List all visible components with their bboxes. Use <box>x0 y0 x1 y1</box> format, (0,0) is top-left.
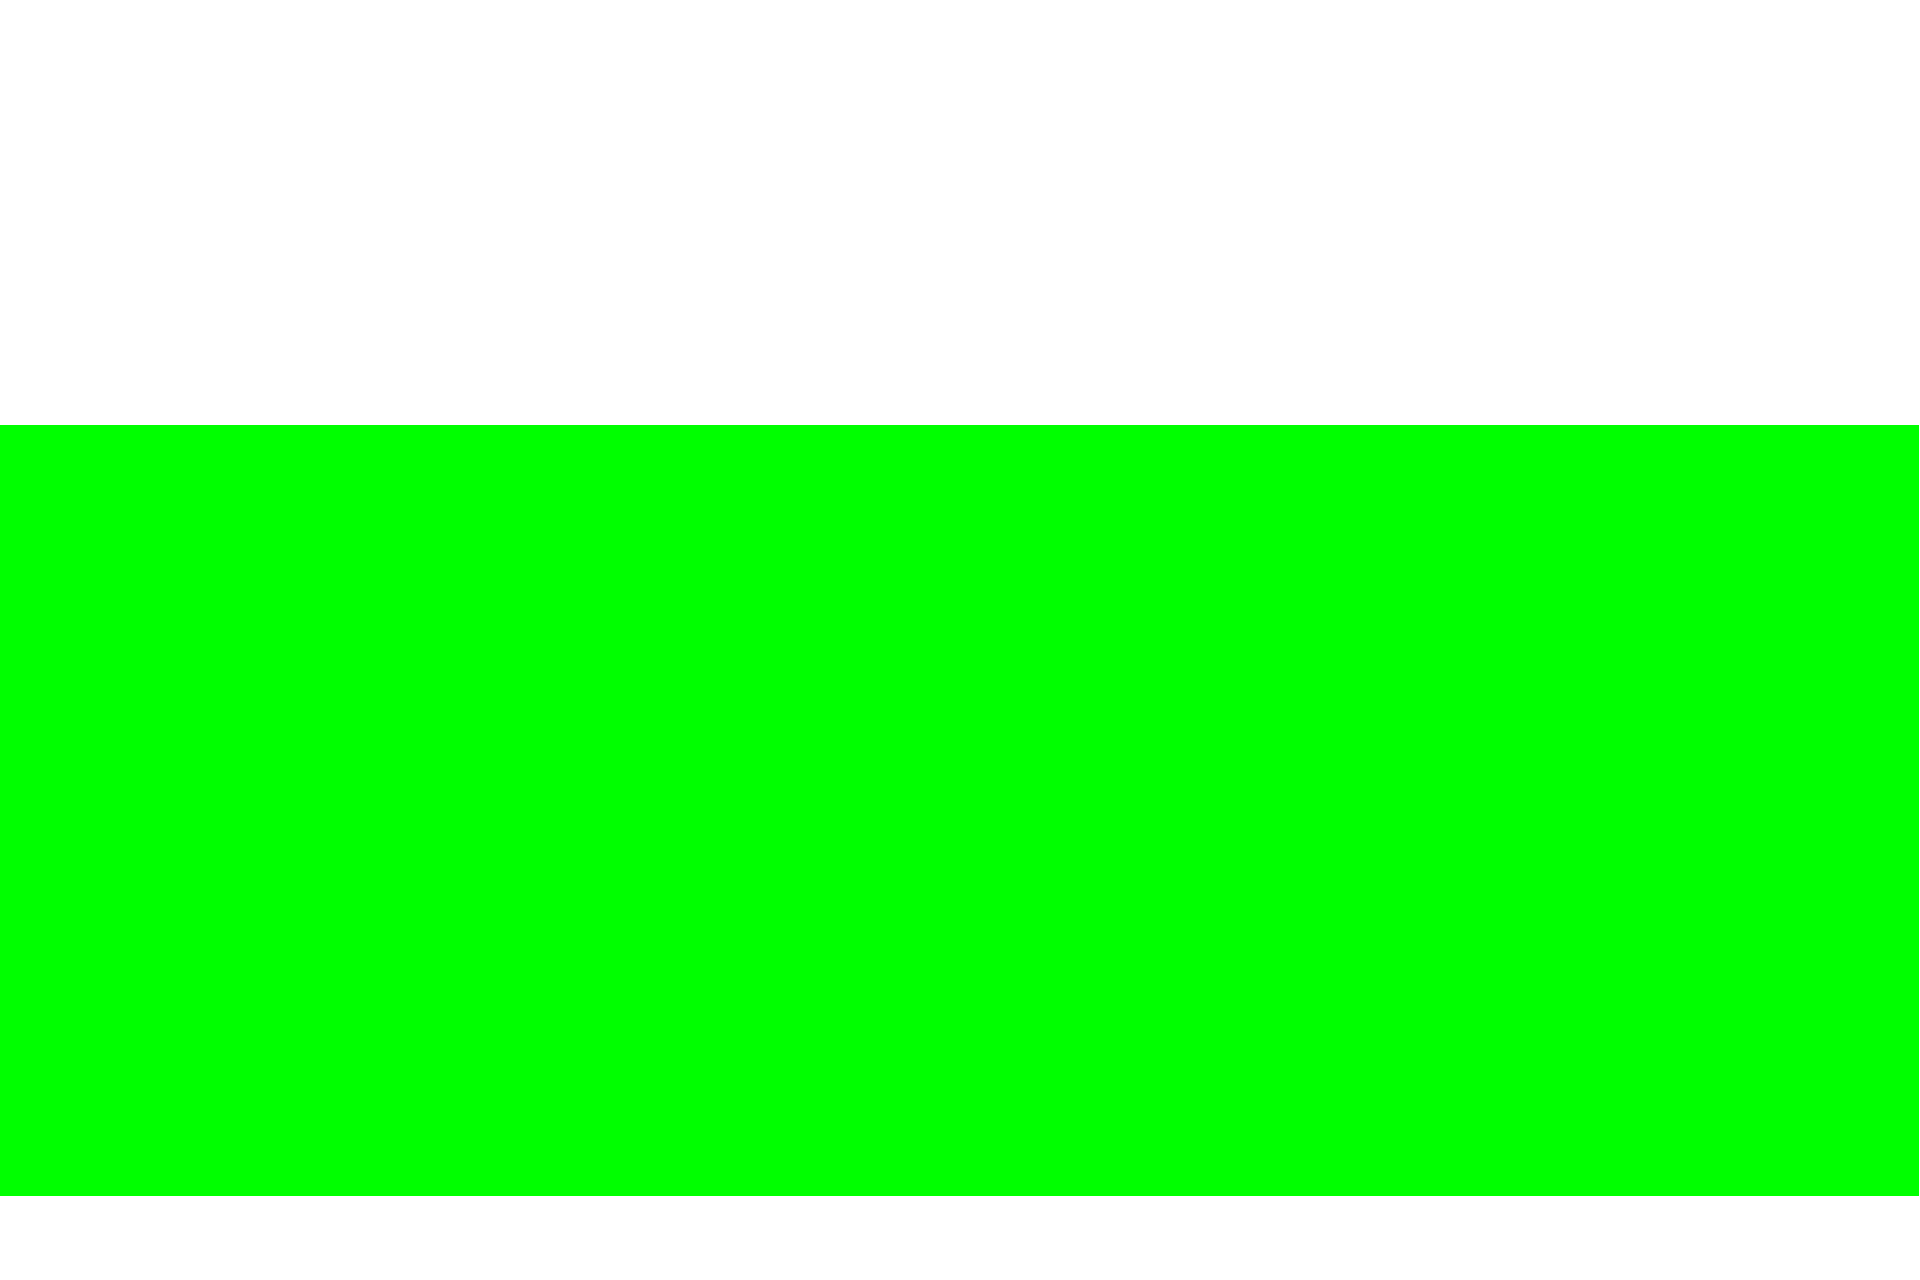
green video placeholder rectangle <box>0 425 1919 1196</box>
